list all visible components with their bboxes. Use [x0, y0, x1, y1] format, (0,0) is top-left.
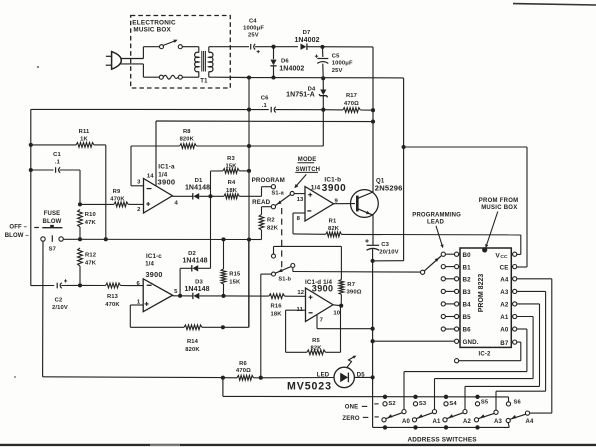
svg-text:LED: LED — [317, 372, 330, 378]
svg-text:S5: S5 — [481, 400, 489, 406]
svg-text:3900: 3900 — [158, 177, 176, 186]
svg-text:18K: 18K — [226, 188, 238, 194]
svg-text:FUSE: FUSE — [44, 211, 61, 217]
svg-text:CC: CC — [500, 254, 508, 260]
svg-text:1N4002: 1N4002 — [294, 37, 319, 44]
svg-text:IC1-c: IC1-c — [146, 253, 162, 260]
svg-text:S7: S7 — [49, 247, 56, 253]
svg-text:470K: 470K — [110, 196, 125, 202]
svg-text:LEAD: LEAD — [427, 220, 444, 226]
svg-text:R14: R14 — [187, 339, 199, 345]
svg-text:2N5296: 2N5296 — [375, 184, 403, 193]
svg-text:B4: B4 — [463, 302, 472, 309]
svg-text:D3: D3 — [195, 280, 203, 286]
svg-text:25V: 25V — [332, 68, 343, 74]
svg-text:A2: A2 — [463, 419, 471, 425]
svg-text:PROM 8223: PROM 8223 — [478, 274, 485, 313]
svg-text:A1: A1 — [433, 419, 441, 425]
svg-text:S1-b: S1-b — [278, 277, 291, 283]
svg-text:3900: 3900 — [146, 270, 163, 279]
svg-text:A4: A4 — [500, 277, 509, 284]
svg-text:B6: B6 — [463, 327, 472, 334]
svg-text:82K: 82K — [328, 226, 340, 232]
svg-text:S6: S6 — [514, 400, 522, 406]
svg-text:47K: 47K — [85, 260, 97, 266]
svg-text:R17: R17 — [346, 93, 357, 99]
svg-text:A0: A0 — [402, 419, 410, 425]
svg-text:R2: R2 — [267, 218, 275, 224]
svg-text:3900: 3900 — [312, 283, 334, 293]
svg-text:S1-a: S1-a — [272, 191, 285, 197]
svg-text:R3: R3 — [227, 156, 235, 162]
svg-text:R7: R7 — [347, 282, 355, 288]
svg-text:C3: C3 — [381, 242, 389, 248]
svg-text:B2: B2 — [463, 277, 472, 284]
svg-text:BLOW –: BLOW – — [5, 233, 30, 239]
svg-text:.1: .1 — [55, 160, 61, 166]
svg-text:C5: C5 — [332, 53, 340, 59]
svg-text:13: 13 — [297, 197, 304, 203]
svg-text:GND.: GND. — [463, 339, 479, 346]
svg-text:MV5023: MV5023 — [287, 380, 332, 392]
svg-text:T1: T1 — [200, 79, 208, 85]
svg-text:82K: 82K — [267, 225, 279, 231]
svg-text:B1: B1 — [463, 264, 472, 271]
svg-text:47K: 47K — [85, 220, 97, 226]
svg-text:READ: READ — [252, 199, 271, 206]
svg-text:PROGRAM: PROGRAM — [252, 177, 285, 184]
svg-text:6: 6 — [136, 281, 140, 287]
svg-text:R10: R10 — [85, 212, 96, 218]
svg-text:BLOW: BLOW — [43, 219, 62, 225]
svg-text:ZERO: ZERO — [342, 416, 359, 422]
svg-text:R6: R6 — [239, 361, 247, 367]
svg-text:MUSIC BOX: MUSIC BOX — [133, 26, 171, 33]
svg-text:A3: A3 — [500, 289, 509, 296]
svg-text:390Ω: 390Ω — [347, 290, 362, 296]
svg-text:3900: 3900 — [322, 183, 347, 194]
svg-text:15K: 15K — [229, 280, 241, 286]
svg-text:18K: 18K — [271, 311, 283, 317]
svg-text:820K: 820K — [185, 347, 200, 353]
svg-text:1N4148: 1N4148 — [184, 286, 209, 293]
svg-text:12: 12 — [297, 290, 304, 296]
svg-text:14: 14 — [147, 174, 154, 180]
svg-text:1/4: 1/4 — [145, 262, 154, 268]
svg-text:5: 5 — [174, 289, 178, 295]
svg-text:1K: 1K — [80, 137, 88, 143]
svg-text:820K: 820K — [180, 137, 195, 143]
svg-text:B5: B5 — [463, 314, 472, 321]
svg-text:25V: 25V — [248, 33, 259, 39]
svg-text:D6: D6 — [281, 59, 289, 65]
svg-text:CE: CE — [500, 264, 509, 271]
svg-text:R13: R13 — [107, 294, 119, 300]
svg-text:10: 10 — [333, 310, 340, 316]
svg-text:15K: 15K — [225, 164, 237, 170]
svg-text:C2: C2 — [55, 298, 63, 304]
svg-text:4: 4 — [174, 201, 178, 207]
svg-text:ADDRESS SWITCHES: ADDRESS SWITCHES — [408, 436, 478, 443]
svg-text:A3: A3 — [494, 419, 502, 425]
svg-text:S3: S3 — [419, 401, 427, 407]
svg-text:A0: A0 — [500, 327, 509, 334]
svg-text:B7: B7 — [500, 340, 509, 347]
svg-text:S2: S2 — [388, 401, 395, 407]
svg-text:1N751-A: 1N751-A — [286, 92, 315, 99]
svg-text:1N4002: 1N4002 — [279, 66, 304, 73]
svg-text:470Ω: 470Ω — [236, 368, 251, 374]
svg-text:R4: R4 — [228, 180, 236, 186]
svg-text:7: 7 — [320, 318, 324, 324]
svg-text:S4: S4 — [449, 401, 457, 407]
svg-text:1/4: 1/4 — [311, 185, 321, 192]
svg-text:470Ω: 470Ω — [344, 101, 359, 107]
svg-text:3: 3 — [137, 179, 141, 185]
svg-text:R11: R11 — [79, 129, 90, 135]
svg-text:A2: A2 — [500, 302, 509, 309]
svg-text:R1: R1 — [329, 218, 337, 224]
svg-text:ELECTRONIC: ELECTRONIC — [132, 19, 176, 26]
svg-text:1N4148: 1N4148 — [182, 258, 207, 265]
svg-text:OFF –: OFF – — [9, 224, 27, 230]
svg-text:A4: A4 — [526, 419, 534, 425]
svg-text:IC-2: IC-2 — [479, 352, 491, 358]
svg-text:C6: C6 — [261, 95, 269, 101]
svg-text:8: 8 — [297, 216, 301, 222]
svg-text:B0: B0 — [463, 252, 472, 259]
svg-text:PROM FROM: PROM FROM — [479, 198, 519, 204]
svg-text:R8: R8 — [183, 129, 191, 135]
svg-text:1000μF: 1000μF — [243, 26, 264, 32]
svg-text:D2: D2 — [188, 251, 196, 257]
svg-text:2/10V: 2/10V — [52, 305, 68, 311]
svg-text:C1: C1 — [53, 152, 61, 158]
svg-text:D7: D7 — [303, 30, 311, 36]
svg-text:MUSIC BOX: MUSIC BOX — [481, 205, 517, 211]
svg-text:A1: A1 — [500, 314, 509, 321]
svg-text:C4: C4 — [249, 18, 257, 24]
svg-text:20/10V: 20/10V — [379, 249, 399, 255]
svg-text:82K: 82K — [310, 346, 322, 352]
svg-text:R9: R9 — [113, 189, 121, 195]
svg-text:.1: .1 — [262, 103, 268, 109]
svg-text:ONE: ONE — [345, 405, 358, 411]
svg-text:D5: D5 — [357, 372, 365, 378]
svg-text:B3: B3 — [463, 289, 472, 296]
svg-text:PROGRAMMING: PROGRAMMING — [412, 212, 461, 218]
svg-text:R5: R5 — [312, 338, 320, 344]
svg-text:1000μF: 1000μF — [332, 61, 353, 67]
svg-text:2: 2 — [137, 207, 141, 213]
svg-text:D1: D1 — [195, 178, 203, 184]
svg-text:470K: 470K — [105, 302, 120, 308]
svg-text:1N4148: 1N4148 — [185, 185, 210, 192]
svg-text:R16: R16 — [271, 304, 283, 310]
svg-text:R15: R15 — [229, 272, 241, 278]
svg-text:R12: R12 — [85, 253, 96, 259]
svg-text:IC1-a: IC1-a — [158, 164, 175, 171]
